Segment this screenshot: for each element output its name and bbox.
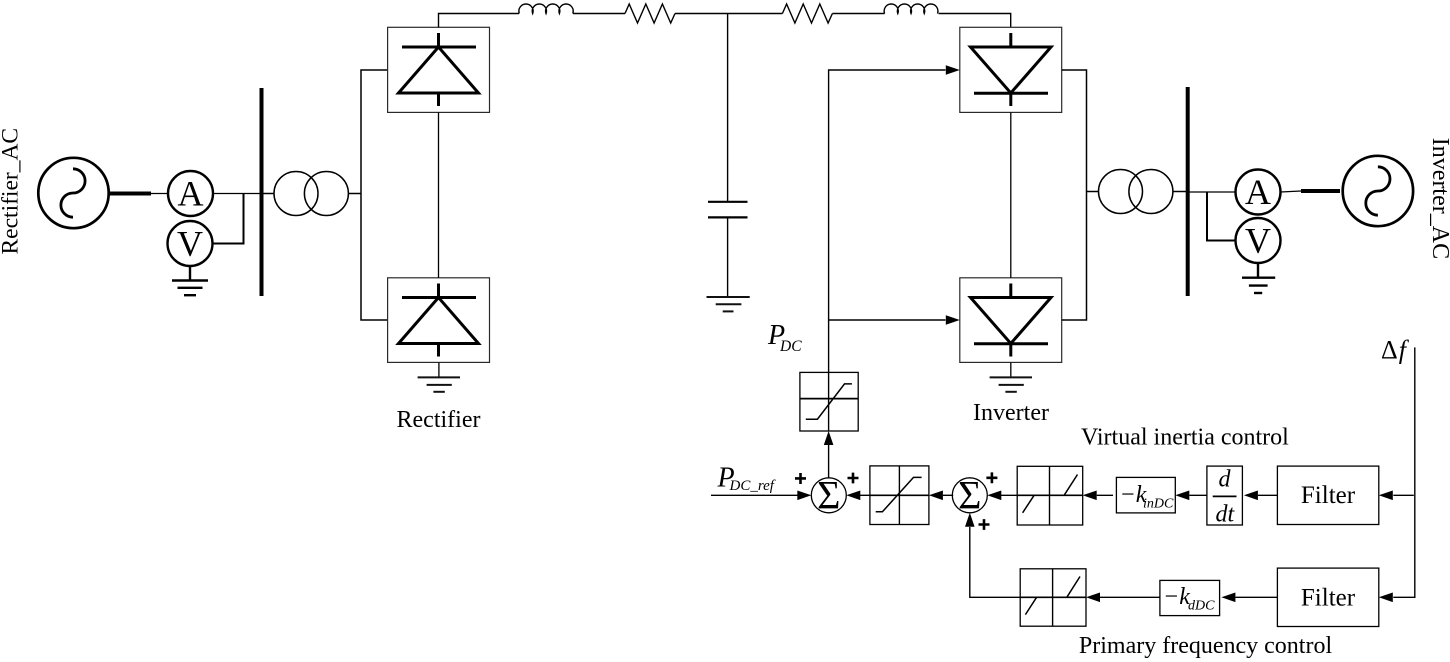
bus bar B1 [260,88,264,296]
arrow P_DC_ref into S1 [711,494,798,496]
ammeter A1 [168,171,213,216]
wire delta f vertical line [1393,347,1415,597]
wire [675,13,782,15]
derivative block d/dt [1207,466,1243,527]
wire junction down to V1 [213,194,244,244]
wire bus to A2 [1188,191,1236,193]
svg-text:dt: dt [1215,501,1235,527]
arrow into filter2 [1379,593,1393,603]
resistor R2 [782,4,832,23]
limiter block P_DC saturation [800,372,858,431]
bus bar B2 [1186,87,1190,296]
wire [832,13,884,15]
filter block F1 [1277,466,1378,524]
voltmeter V1 [168,221,213,266]
AC source G1 [38,158,108,228]
saturation block [870,466,929,525]
arrow into inverter top valve [946,65,960,75]
ammeter A2 [1236,170,1281,215]
svg-text:−k: −k [1163,584,1190,610]
svg-text:Σ: Σ [817,473,840,518]
wire rail to inverter top [939,14,1011,28]
capacitor C1 [708,14,748,297]
svg-text:A: A [1245,172,1271,212]
arrow from sum S1 up into limiter [828,443,830,478]
plus sign left of S1 [795,473,806,484]
inductor L2 [884,4,938,14]
dead-band block D2 [1020,569,1086,626]
transformer T2 [1087,170,1188,214]
wire between rectifier valves [438,112,440,277]
wire G1 to A1 (thick stub) [109,192,151,196]
svg-text:Inverter_AC: Inverter_AC [1427,138,1450,259]
ground under rectifier [418,362,460,391]
inductor L1 [519,4,573,13]
svg-text:Virtual inertia control: Virtual inertia control [1081,425,1289,451]
arrow into inverter bottom valve [946,315,960,325]
voltmeter V2 [1236,218,1281,263]
summing junction S1 [811,473,846,518]
svg-text:Δf: Δf [1381,336,1410,365]
transformer T1 [262,172,362,216]
arrow deadband1 to S2 [1001,494,1017,496]
svg-text:V: V [1245,221,1271,261]
svg-text:Rectifier_AC: Rectifier_AC [0,128,24,255]
thyristor valve box inverter top [960,27,1062,112]
summing junction S2 [952,473,987,518]
svg-text:V: V [177,224,203,264]
wire A1 to bus [213,193,262,195]
svg-text:Rectifier: Rectifier [397,407,481,433]
wire inverter valves to transformer collector [1062,70,1087,320]
wire rectifier top to DC rail [439,14,520,28]
gain block -k_dDC [1160,580,1220,615]
svg-text:Filter: Filter [1301,584,1356,611]
arrow S2 to saturation block [943,494,953,496]
wire A2 to G2 (thick stub) [1281,191,1302,192]
arrow gain2 to deadband2 [1100,596,1160,598]
wire junction down to V2 [1207,192,1236,241]
ground under inverter [990,362,1032,391]
wire between inverter valves [1010,112,1012,277]
gain block -k_inDC [1116,477,1175,513]
ground under capacitor [707,297,750,311]
svg-text:Primary frequency control: Primary frequency control [1079,633,1333,659]
svg-text:DC: DC [779,338,802,355]
arrow ddt to gain1 [1189,494,1207,496]
filter block F2 [1277,568,1378,626]
svg-text:d: d [1219,466,1232,492]
plus sign right of S2 [986,472,997,483]
ground under V2 [1242,263,1275,293]
svg-text:Inverter: Inverter [973,400,1049,426]
plus sign right of S1 [848,473,859,484]
wire splitter to rectifier valves [361,70,388,320]
thyristor valve box rectifier bottom [388,278,490,363]
wire df vertical to filter1 with arrow [1393,494,1414,496]
arrow saturation to S1 [860,494,870,496]
wire control signal vertical [829,70,946,372]
AC source G2 [1343,156,1413,226]
plus sign below right of S2 [979,519,990,530]
svg-text:dDC: dDC [1188,599,1215,614]
resistor R1 [625,4,675,23]
wire [573,13,625,15]
dead-band block D1 [1017,466,1082,525]
arrow filter1 to ddt [1258,494,1278,496]
thyristor valve box inverter bottom [960,278,1062,363]
arrow up into S2 [965,513,975,527]
wire [150,193,168,195]
arrow gain1 to deadband1 [1097,494,1113,496]
wire to bottom valve [829,319,946,321]
wire deadband2 to S2 [970,527,1020,597]
svg-text:A: A [178,174,204,214]
thyristor valve box rectifier top [388,27,490,112]
arrow filter2 to gain2 [1235,596,1277,598]
svg-text:DC_ref: DC_ref [729,478,776,494]
svg-text:Filter: Filter [1301,482,1356,509]
ground under V1 [172,266,208,295]
svg-text:Σ: Σ [958,473,981,518]
svg-text:inDC: inDC [1143,497,1174,512]
